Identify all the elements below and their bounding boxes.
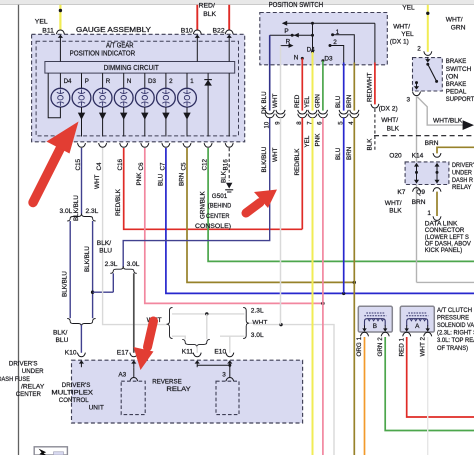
svg-text:B: B <box>373 323 377 330</box>
drivers multiplex control unit dashed box <box>72 360 303 423</box>
wire BLU pin 5 <box>343 63 345 111</box>
connector cup E17 <box>130 353 138 357</box>
svg-text:BRAKE: BRAKE <box>446 58 467 65</box>
wire BRN to data link connector <box>436 192 438 216</box>
svg-text:BLK/: BLK/ <box>53 330 67 337</box>
svg-text:DIMMING CIRCUIT: DIMMING CIRCUIT <box>104 65 160 72</box>
svg-text:CONTROL: CONTROL <box>59 397 89 404</box>
merge brace WHT to K11 <box>182 339 210 347</box>
wire WHT output to bottom edge <box>250 322 254 324</box>
wire K11-E10 link <box>197 364 230 366</box>
svg-text:BLK: BLK <box>221 170 228 183</box>
connector arch B22 <box>225 30 233 34</box>
connector cup pin C6 <box>141 143 149 147</box>
svg-text:1: 1 <box>190 78 194 85</box>
left vertical border line <box>18 5 20 455</box>
svg-text:RED 1: RED 1 <box>398 337 405 356</box>
wire GRN pin 6 <box>322 61 324 111</box>
svg-text:BRN: BRN <box>346 146 353 160</box>
svg-text:SWITCH: SWITCH <box>446 66 472 73</box>
wire RED/BLK from C16 to position switch pin 8 <box>124 148 303 229</box>
wire lamp 2 to pin with diode arrow <box>165 107 167 137</box>
svg-text:DRIVER'S: DRIVER'S <box>9 361 38 368</box>
svg-text:K11: K11 <box>182 348 194 355</box>
svg-text:WHT/BLK: WHT/BLK <box>433 117 463 124</box>
A/T clutch pressure solenoid valve A box <box>400 306 434 332</box>
relay element right <box>436 165 438 183</box>
svg-text:K10: K10 <box>65 349 77 356</box>
bottom page icon chip <box>54 452 64 455</box>
svg-text:UNDER: UNDER <box>22 368 44 375</box>
wire WHT/BLK main from brake pin 3 <box>416 96 418 282</box>
junction dot PNK <box>321 302 324 305</box>
svg-text:2: 2 <box>169 78 173 85</box>
svg-text:B22: B22 <box>213 28 225 35</box>
svg-text:K14: K14 <box>412 153 424 160</box>
svg-text:BLK: BLK <box>366 138 373 151</box>
svg-text:2: 2 <box>417 46 421 53</box>
wire WHT 2.3L top branch <box>172 313 244 315</box>
indicator lamp D3 <box>144 73 146 88</box>
merge brace to K10 <box>67 319 95 327</box>
svg-text:GAUGE ASSEMBLY: GAUGE ASSEMBLY <box>76 27 151 34</box>
svg-text:RED/WHT: RED/WHT <box>366 72 373 102</box>
wire BLU below pin 5 <box>343 118 345 294</box>
svg-text:D3: D3 <box>324 55 333 62</box>
svg-text:RELAY: RELAY <box>166 386 191 393</box>
svg-text:A/T CLUTCH: A/T CLUTCH <box>437 307 472 314</box>
wire WHT/BLK exit right <box>417 281 474 283</box>
svg-text:DASH FUSE: DASH FUSE <box>0 376 30 383</box>
svg-text:B11: B11 <box>42 27 54 34</box>
pin arrow K11 <box>196 363 198 368</box>
svg-text:(2.3L: RIGHT S: (2.3L: RIGHT S <box>437 330 474 337</box>
off-page arrow WHT/BLK <box>463 120 474 130</box>
svg-text:3.0L: 3.0L <box>251 332 264 339</box>
svg-text:PNK: PNK <box>136 172 143 186</box>
wire BLK/BLU from C15 <box>81 148 83 214</box>
svg-text:WHT: WHT <box>272 94 279 108</box>
connector cup K14 <box>433 153 441 157</box>
pin arrow B11 into gauge box <box>59 37 61 42</box>
svg-text:MULTIPLEX: MULTIPLEX <box>51 390 93 397</box>
svg-text:(ON: (ON <box>446 73 459 80</box>
wire YEL brake switch <box>427 5 429 52</box>
svg-text:BLU: BLU <box>335 95 342 108</box>
svg-text:POSITION INDICATOR: POSITION INDICATOR <box>70 51 136 58</box>
bottom page icon box <box>34 447 67 455</box>
svg-text:G501: G501 <box>212 193 228 200</box>
wire DK BLU pin 10 <box>269 35 271 110</box>
svg-text:CONSOLE): CONSOLE) <box>195 223 231 230</box>
inline connector pin 7 <box>308 110 317 114</box>
inline connector pin 9 <box>276 110 285 114</box>
wire lamp D4 bottom loop <box>48 73 60 118</box>
svg-text:BLK/BLU: BLK/BLU <box>261 146 268 172</box>
svg-text:YEL: YEL <box>402 4 415 11</box>
brake switch pin 3 contact arrow <box>415 81 418 84</box>
svg-text:3.0L: 3.0L <box>127 261 140 268</box>
wire WHT merged to K11 <box>196 346 198 353</box>
wire BRN pin 4 <box>353 63 355 111</box>
svg-text:BLK: BLK <box>203 11 216 18</box>
red arrow annotation 3 <box>148 321 154 347</box>
wire ORG to bottom <box>364 337 366 455</box>
wire WHT bottom-right segment to E10 <box>220 335 244 337</box>
svg-text:BLK/BLU: BLK/BLU <box>73 195 80 221</box>
svg-text:RED/: RED/ <box>199 3 215 10</box>
wire WHT pin 9 <box>280 46 282 111</box>
connector cup data link pin 1 <box>433 216 441 220</box>
brace left WHT split <box>167 308 173 339</box>
svg-text:DK BLU: DK BLU <box>261 91 268 114</box>
dimming circuit box <box>45 62 235 74</box>
svg-text:PRESSURE: PRESSURE <box>437 314 469 321</box>
svg-text:RED/BLK: RED/BLK <box>294 148 301 176</box>
svg-text:E10: E10 <box>214 348 226 355</box>
svg-text:A/T GEAR: A/T GEAR <box>106 43 134 50</box>
junction dot WHT top branch <box>205 312 208 315</box>
svg-text:WHT/: WHT/ <box>393 24 410 31</box>
svg-text:BLU: BLU <box>99 248 112 255</box>
connector cup RED/WHT (DX 2) <box>371 104 379 108</box>
wire lamp P to pin with diode arrow <box>81 107 83 137</box>
wire WHT solenoid A to bottom <box>427 337 429 455</box>
wire WHT drop from dot <box>206 314 208 339</box>
inline connector pin 6 <box>318 110 327 114</box>
indicator lamp P <box>81 73 83 88</box>
connector arch B11 <box>56 30 64 34</box>
svg-text:YEL: YEL <box>304 96 311 108</box>
wire BRN from right edge to relay <box>437 147 474 153</box>
wire RED/WHT switch bus <box>374 63 376 105</box>
svg-text:YEL: YEL <box>304 135 311 147</box>
wire RED/BLK below pin 8 <box>301 118 303 230</box>
svg-text:WHT: WHT <box>252 320 267 327</box>
inline connector pin 10 <box>265 110 274 114</box>
svg-text:DRIVER': DRIVER' <box>452 162 474 169</box>
svg-text:(DX 2): (DX 2) <box>379 105 398 112</box>
svg-text:WHT: WHT <box>94 175 101 189</box>
svg-text:D3: D3 <box>148 78 156 85</box>
svg-text:SUPPORT: SUPPORT <box>446 96 474 103</box>
svg-text:BLK: BLK <box>387 126 400 133</box>
svg-text:/RELAY: /RELAY <box>21 383 45 390</box>
wire RED solenoid A exit right <box>407 337 474 417</box>
svg-text:(DX 1): (DX 1) <box>390 39 409 46</box>
red arrow annotation 1 <box>33 147 61 203</box>
svg-text:B10: B10 <box>181 28 193 35</box>
split brace 2.3L/3.0L mid <box>110 266 137 273</box>
svg-text:(BEHIND: (BEHIND <box>208 203 232 210</box>
svg-text:BLU: BLU <box>157 173 164 186</box>
driver underdash relay box <box>405 162 449 185</box>
wire BLK/BLU from position switch pin 10 across <box>123 118 270 267</box>
wire B10 to dimming circuit <box>196 42 198 62</box>
svg-text:BLK/BLU: BLK/BLU <box>84 246 91 272</box>
svg-text:WHT/: WHT/ <box>385 200 402 207</box>
svg-text:B16: B16 <box>223 159 230 171</box>
svg-text:GRN: GRN <box>451 25 466 32</box>
svg-text:BLK/: BLK/ <box>97 240 111 247</box>
wire BLK/BLU 2.3L branch <box>92 221 94 318</box>
svg-text:N: N <box>127 78 131 85</box>
svg-text:WHT/: WHT/ <box>381 117 398 124</box>
junction dot WHT with pin 9 <box>279 323 282 326</box>
svg-text:3: 3 <box>407 96 411 103</box>
svg-text:E17: E17 <box>117 349 129 356</box>
svg-text:PEDAL: PEDAL <box>446 89 467 96</box>
svg-text:A: A <box>415 323 420 330</box>
svg-text:3: 3 <box>222 371 226 378</box>
indicator lamp D4 <box>59 73 61 88</box>
gauge assembly outer dashed box <box>32 34 245 142</box>
svg-text:3.0L: TOP REA: 3.0L: TOP REA <box>437 337 474 344</box>
svg-text:BLK/BLU: BLK/BLU <box>62 271 69 297</box>
wire YEL B11 <box>59 5 61 30</box>
connector cup pin C15 <box>78 143 86 147</box>
connector cup pin B16 <box>225 143 233 147</box>
wire BLU from C7 off right edge <box>166 148 474 293</box>
pin arrow B22 into gauge box <box>228 37 230 42</box>
wire RED/BLK B10 <box>196 5 198 30</box>
connector cup A3 <box>130 378 138 382</box>
svg-text:BRAKE: BRAKE <box>446 81 467 88</box>
wire BLK/BLU 3.0L branch to K10 <box>69 221 71 318</box>
wire GRN solenoid B exit right <box>385 337 474 431</box>
svg-text:YEL: YEL <box>35 18 48 25</box>
svg-text:2.3L: 2.3L <box>86 208 99 215</box>
wire B22 through to B16 pin <box>228 73 230 136</box>
inline connector pin 5 <box>339 110 348 114</box>
wire RED pin 8 <box>301 58 303 110</box>
junction dot on B11 yellow wire <box>59 9 62 12</box>
svg-text:WHT/: WHT/ <box>446 17 463 24</box>
svg-text:RED/BLK: RED/BLK <box>115 188 122 216</box>
svg-text:REVERSE: REVERSE <box>152 378 182 385</box>
svg-text:BRN: BRN <box>178 172 185 186</box>
wire BLK/BLU merged to K10 <box>80 325 82 353</box>
reverse relay sub-box 3 <box>216 381 239 414</box>
wire GRN/BLK from C12 off right edge <box>208 148 474 261</box>
wire lamp 1 to pin with diode arrow <box>186 107 188 137</box>
svg-text:PNK: PNK <box>314 133 321 147</box>
svg-text:K7: K7 <box>397 189 405 196</box>
wire WHT below pin 9 <box>280 118 282 325</box>
wire BLK dashed below DX2 connector <box>374 109 376 151</box>
connector cup E10 <box>226 353 234 357</box>
svg-text:UNDER: UNDER <box>452 169 472 176</box>
wire lamp R to pin with diode arrow <box>102 107 104 137</box>
wire WHT from C4 <box>103 148 167 325</box>
svg-text:P: P <box>284 28 288 35</box>
junction dot 2.3L tie point <box>91 291 94 294</box>
svg-text:RED: RED <box>294 94 301 108</box>
svg-text:KICK PANEL): KICK PANEL) <box>425 247 463 254</box>
wire BRN from C5 <box>187 148 354 282</box>
pin arrow E10 <box>229 363 231 368</box>
connector arch B10 <box>193 30 201 34</box>
pin arrow K10 <box>80 363 82 368</box>
connector cup pin C4 <box>99 143 107 147</box>
svg-text:P: P <box>85 78 89 85</box>
wire WHT 3.0L bottom branch <box>172 336 185 339</box>
wire WHT E10 drop <box>229 336 231 353</box>
svg-text:A3: A3 <box>118 371 126 378</box>
A/T gear position indicator inner dashed box <box>36 41 238 136</box>
wire WHT/BLK branch to off-page arrow <box>417 97 463 125</box>
svg-text:DRIVER'S: DRIVER'S <box>62 382 91 389</box>
connector cup brake pin 3 <box>413 92 421 96</box>
wire BRN below pin 4 <box>353 118 355 283</box>
wire lamp D3 to pin with diode arrow <box>144 107 146 137</box>
svg-text:BLU: BLU <box>335 147 342 160</box>
wire YEL pin 7 <box>312 52 314 111</box>
top gray band <box>0 0 474 4</box>
svg-text:OF TRANS): OF TRANS) <box>437 345 468 352</box>
solenoid A pin arrows <box>406 325 408 329</box>
indicator lamp R <box>102 73 104 88</box>
svg-text:BRN: BRN <box>425 140 439 147</box>
svg-text:CENTER: CENTER <box>16 391 41 398</box>
wire B22 down to dimming circuit row <box>228 42 230 62</box>
svg-text:BRN: BRN <box>412 199 426 206</box>
wire BLK dashed from B16 to ground <box>228 148 230 181</box>
wire PNK from C6 <box>145 148 323 303</box>
junction dot BRN <box>353 281 356 284</box>
brake switch blade <box>426 63 429 66</box>
inline connector pin 4 <box>350 110 359 114</box>
svg-text:UNIT: UNIT <box>89 405 104 412</box>
svg-text:YEL: YEL <box>401 31 414 38</box>
relay element left <box>416 165 418 183</box>
ground G501 symbol <box>226 183 232 189</box>
position switch dashed box <box>260 13 388 65</box>
connector cup pin C12 <box>204 143 212 147</box>
svg-text:BRN: BRN <box>346 94 353 108</box>
svg-text:WHT: WHT <box>272 148 279 162</box>
svg-text:ORG 1: ORG 1 <box>356 336 363 356</box>
svg-text:R: R <box>106 78 111 85</box>
wire PNK below pin 6 to bottom <box>322 118 324 455</box>
svg-text:Q9: Q9 <box>416 189 425 196</box>
switch common bus <box>286 22 375 24</box>
svg-text:2.3L: 2.3L <box>251 307 264 314</box>
indicator lamp 1 <box>186 73 188 88</box>
wire lamp N to pin with diode arrow <box>123 107 125 137</box>
connector cup K7 <box>413 188 421 192</box>
svg-text:POSITION SWITCH: POSITION SWITCH <box>269 2 324 9</box>
wire YEL below pin 7 to bottom <box>312 118 314 455</box>
brake switch pin 2 arrow <box>427 57 429 60</box>
svg-text:1: 1 <box>427 210 431 217</box>
svg-text:DASH R: DASH R <box>452 177 473 184</box>
connector cup K10 <box>77 353 85 357</box>
svg-text:GRN: GRN <box>314 94 321 108</box>
indicator lamp 2 <box>165 73 167 88</box>
svg-text:CENTER: CENTER <box>206 213 230 220</box>
connector cup pin C16 <box>120 143 128 147</box>
A/T clutch pressure solenoid valve B box <box>358 306 392 332</box>
wire tie 2.3L branch to switch BLK/BLU <box>93 291 114 293</box>
svg-text:BLK: BLK <box>389 208 402 215</box>
brake switch dashed box <box>413 58 443 91</box>
wire B11 to dimming circuit <box>59 42 61 62</box>
brace right WHT merge <box>243 308 249 339</box>
connector cup pin 3 <box>226 378 234 382</box>
svg-text:RELAY: RELAY <box>452 184 472 191</box>
connector cup K11 <box>193 353 201 357</box>
indicator lamp N <box>123 73 125 88</box>
solenoid B pin arrows <box>364 325 366 329</box>
connector cup pin C5 <box>183 143 191 147</box>
connector cup pin C7 <box>162 143 170 147</box>
svg-text:10: 10 <box>265 121 271 128</box>
junction dot BLU <box>342 292 345 295</box>
pin arrow B10 into gauge box <box>196 37 198 42</box>
red arrow annotation 2 <box>246 203 260 214</box>
svg-text:BLU: BLU <box>56 337 69 344</box>
connector cup Q9 <box>433 188 441 192</box>
svg-text:D4: D4 <box>64 78 72 85</box>
svg-text:SOLENOID VA: SOLENOID VA <box>437 322 474 329</box>
pin arrow E17 <box>133 363 135 368</box>
connector cup brake pin 2 <box>424 51 432 55</box>
diode D in gauge assembly <box>207 73 209 136</box>
junction dot YEL <box>426 12 429 15</box>
svg-text:N: N <box>294 55 299 62</box>
svg-text:GRN 2: GRN 2 <box>377 337 384 357</box>
wire E17 to A3 <box>133 367 135 378</box>
wire BLK/BLU 2.3L to tie dot <box>112 273 114 292</box>
wire RED B22 <box>228 5 230 30</box>
svg-text:WHT 2: WHT 2 <box>419 337 426 357</box>
reverse relay sub-box A3 <box>121 381 145 414</box>
inline connector pin 8 <box>298 110 307 114</box>
svg-text:2.3L: 2.3L <box>105 261 118 268</box>
wire BLK/BLU 3.0L to E17 (dark) <box>133 273 135 353</box>
bottom page icon arrow <box>39 449 48 455</box>
dashed separator line <box>374 135 474 137</box>
switch bus corner to RED/WHT <box>374 23 376 62</box>
wire BRN down to bottom edge <box>353 282 355 455</box>
split brace 3.0L/2.3L under C15 <box>67 214 95 222</box>
svg-text:3.0L: 3.0L <box>60 208 73 215</box>
svg-text:O20: O20 <box>389 153 402 160</box>
